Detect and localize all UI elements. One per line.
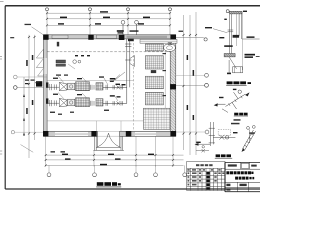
right dim texts (vertical) bbox=[187, 55, 195, 120]
equipment table title bbox=[196, 164, 213, 166]
bottom dim ticks bbox=[45, 154, 174, 166]
pump cluster marks row2 bbox=[110, 95, 121, 97]
pump hatch B1 bbox=[96, 83, 103, 90]
iso2 dashed box bbox=[218, 130, 230, 136]
grid bubble B bbox=[89, 8, 92, 11]
riser flange ticks bbox=[228, 30, 234, 32]
iso2 horizontal pipe bbox=[213, 136, 235, 138]
riser detail: label bubble bbox=[226, 10, 229, 13]
title block row1 stamp box bbox=[241, 163, 249, 168]
grid line D vertical (top) bbox=[169, 11, 171, 35]
riser top elbow hatched bbox=[230, 11, 243, 14]
iso1 arrow left bbox=[214, 103, 218, 106]
top exterior wall bbox=[44, 35, 176, 39]
header check valve bbox=[130, 56, 135, 67]
iso2 upper text marks bbox=[231, 119, 241, 124]
pump label texts bbox=[50, 76, 109, 114]
pump cluster leaders row1 bbox=[112, 72, 125, 82]
bottom grid bubble A bbox=[47, 165, 51, 176]
electrical panel box B bbox=[145, 56, 163, 69]
entrance porch bbox=[93, 137, 124, 151]
door opening thin lines bbox=[98, 132, 120, 137]
iso1 texts bbox=[219, 89, 236, 99]
pipe wall penetration ticks right wall bbox=[168, 42, 172, 44]
riser crossover valve bbox=[233, 35, 240, 38]
electrical panel box C bbox=[145, 76, 163, 89]
equipment rects top-left interior bbox=[56, 60, 81, 69]
pump unit row 1 bbox=[46, 82, 127, 91]
flanges row 2 bbox=[91, 101, 95, 106]
small dim texts left of wall bbox=[25, 80, 40, 85]
detail ref leader top-right bbox=[176, 37, 207, 41]
pump hatch B2 bbox=[96, 99, 103, 106]
window in left wall bbox=[44, 58, 47, 74]
column top C bbox=[119, 35, 125, 40]
right dim ticks bbox=[183, 34, 198, 135]
leader at top-left corner bbox=[32, 27, 44, 35]
pump label leaders bbox=[58, 76, 118, 101]
riser bottom line to edge bbox=[242, 38, 259, 40]
axis bubble left 1 bbox=[14, 75, 18, 79]
column top B bbox=[88, 35, 93, 40]
diagonal leader bottom-left bbox=[21, 145, 34, 153]
dimension text top row1 bbox=[58, 11, 150, 24]
equipment table bold entries bbox=[206, 172, 209, 190]
tiled room bottom-right bbox=[144, 108, 171, 129]
iso2 lower-left valve run bbox=[196, 146, 209, 153]
equipment shelf at top wall bbox=[140, 39, 177, 51]
column right-middle bbox=[170, 84, 176, 89]
isometric detail 2: vertical pipe bbox=[209, 122, 215, 146]
bottom grid bubble C bbox=[134, 165, 138, 176]
suction cone 2 bbox=[59, 98, 67, 106]
grid line C vertical (top) bbox=[127, 11, 129, 35]
header pipe vertical bbox=[125, 39, 131, 103]
column left-middle pilaster bbox=[36, 81, 42, 86]
axis bubble right 1 bbox=[176, 73, 208, 77]
pump base 2 bbox=[76, 98, 90, 107]
pipe fittings row 2 bbox=[106, 101, 123, 106]
pump unit row 2 bbox=[46, 98, 127, 107]
valve row 1 bbox=[117, 85, 121, 89]
window in bottom wall 2 bbox=[135, 132, 156, 136]
riser right text block bbox=[245, 54, 260, 58]
column bottom-right bbox=[170, 131, 176, 137]
pipe fittings row 1 bbox=[106, 85, 123, 90]
door recess lines bbox=[96, 121, 121, 131]
grid line B vertical (top) bbox=[89, 11, 91, 35]
title block project name line2 bbox=[235, 177, 254, 180]
column bottom B bbox=[91, 131, 96, 137]
riser bottom fitting bbox=[227, 73, 231, 75]
valve riser symbol on top wall 1 bbox=[121, 20, 138, 34]
interior pit edge line bbox=[47, 80, 133, 82]
left exterior wall bbox=[44, 35, 48, 137]
small mark near left border bbox=[10, 37, 14, 38]
iso2 ladder diagonal bbox=[243, 130, 256, 150]
motor 2 bbox=[68, 99, 75, 106]
plan title text bbox=[97, 182, 121, 186]
riser connect box bbox=[233, 67, 243, 73]
interior line above bottom wall bbox=[47, 120, 170, 122]
riser detail title bbox=[227, 81, 251, 84]
bottom grid bubble C2 bbox=[154, 165, 158, 176]
riser dim extension bbox=[241, 12, 243, 70]
bottom dim texts bbox=[62, 154, 154, 166]
porch step text bbox=[51, 151, 66, 152]
title block frame bbox=[225, 162, 260, 191]
iso1 arrow right bbox=[245, 92, 250, 96]
right dimension strings bbox=[184, 12, 197, 155]
axis bubble right 3 bbox=[176, 130, 209, 134]
iso1 flange ticks bbox=[229, 96, 243, 106]
top dimension lines bbox=[47, 13, 170, 25]
suction cone 1 bbox=[59, 82, 67, 90]
electrical panel box D bbox=[145, 92, 163, 105]
column top-left bbox=[43, 34, 48, 39]
bottom grid bubble B bbox=[93, 165, 97, 176]
flanges row 1 bbox=[91, 85, 95, 90]
suction fittings 1 bbox=[48, 84, 59, 90]
window in top wall 1 bbox=[52, 35, 68, 38]
iso1 circle bbox=[238, 90, 241, 93]
title block row3 texts bbox=[226, 184, 246, 186]
isometric detail 1 bbox=[217, 92, 245, 109]
iso2 left run with arrow bbox=[197, 143, 210, 145]
bottom extension lines bbox=[46, 137, 173, 167]
panel label blob bbox=[151, 70, 156, 73]
column bottom C bbox=[126, 131, 132, 137]
grid bubble C bbox=[127, 8, 130, 11]
valve riser symbol on top wall 2 bbox=[135, 20, 139, 24]
wall sleeve block at header bbox=[128, 39, 134, 42]
door opening bottom wall bbox=[98, 131, 120, 137]
axis bubble left 3 bbox=[11, 131, 14, 134]
iso1 title bbox=[234, 113, 247, 116]
entrance double door arcs bbox=[97, 133, 119, 147]
iso1 extra branch bbox=[222, 109, 228, 113]
iso2 title bbox=[216, 154, 231, 157]
grid line A vertical (top) bbox=[47, 11, 170, 35]
grid bubble A bbox=[46, 8, 49, 11]
interior dashed axis line bbox=[47, 51, 170, 53]
equipment platform edge line bbox=[164, 44, 166, 108]
title block row1 texts bbox=[228, 164, 257, 166]
discharge pipe row 1 bbox=[103, 86, 127, 88]
left dim ticks bbox=[28, 36, 36, 135]
bottom grid bubble D bbox=[183, 165, 187, 176]
iso2 valve bowtie bbox=[219, 135, 224, 140]
right exterior wall bbox=[170, 35, 176, 137]
tank ellipse bbox=[164, 44, 176, 52]
equipment table bbox=[187, 161, 225, 190]
left vertical dim with arrows bbox=[23, 77, 25, 136]
right strip dim text bbox=[179, 31, 184, 32]
riser pipes vertical bbox=[230, 14, 242, 57]
pump cluster marks row1 bbox=[110, 78, 126, 85]
interior annotation marks bbox=[56, 55, 90, 76]
column top-right bbox=[170, 34, 176, 39]
riser texts bbox=[205, 11, 255, 47]
wall pipe block 1 bbox=[46, 82, 48, 87]
equipment table header text bbox=[187, 169, 220, 170]
iso2 right vertical bbox=[249, 129, 251, 143]
box label marks right side bbox=[163, 53, 167, 96]
electrical panel box A bbox=[145, 44, 163, 51]
window in bottom wall 1 bbox=[55, 132, 88, 136]
motor 1 bbox=[68, 83, 75, 90]
wall pipe block 2 bbox=[46, 98, 48, 103]
suction fittings 2 bbox=[48, 100, 59, 106]
iso2 circle bbox=[225, 136, 228, 139]
louver band top wall bbox=[127, 35, 168, 38]
iso2 ladder arrow bbox=[242, 148, 245, 152]
corridor dashed line bbox=[133, 39, 135, 131]
riser leader from left text bbox=[213, 29, 227, 33]
axis bubble right 2 bbox=[176, 83, 208, 87]
left dimension line outer bbox=[29, 35, 35, 158]
iso2 texts bbox=[196, 132, 255, 143]
column bottom-left bbox=[43, 131, 48, 137]
grid bubble D bbox=[169, 8, 172, 11]
riser bottom hatched block bbox=[224, 54, 235, 57]
title block project name line1 bbox=[226, 171, 253, 174]
riser drop diagonal bbox=[229, 57, 237, 73]
dimension ticks top bbox=[46, 12, 171, 26]
scan artifact marks left edge bbox=[0, 2, 4, 155]
valve row 2 bbox=[117, 101, 121, 105]
window swing triangles outside left wall bbox=[36, 49, 43, 76]
pump base 1 bbox=[76, 82, 90, 91]
bottom dimension lines bbox=[45, 155, 184, 165]
axis bubble left 2 bbox=[14, 86, 18, 90]
iso2 small circles bbox=[247, 127, 250, 130]
window in top wall 2 bbox=[97, 35, 117, 38]
title block row4 texts bbox=[226, 188, 230, 190]
downpipe fixture below top wall bbox=[57, 42, 59, 47]
bottom exterior wall bbox=[44, 131, 176, 137]
equipment table light entries bbox=[188, 172, 225, 185]
annotation text above wall bbox=[117, 30, 139, 33]
left dim text bbox=[26, 55, 33, 114]
discharge pipe row 2 bbox=[103, 102, 127, 104]
sheet border frame bbox=[5, 6, 260, 189]
